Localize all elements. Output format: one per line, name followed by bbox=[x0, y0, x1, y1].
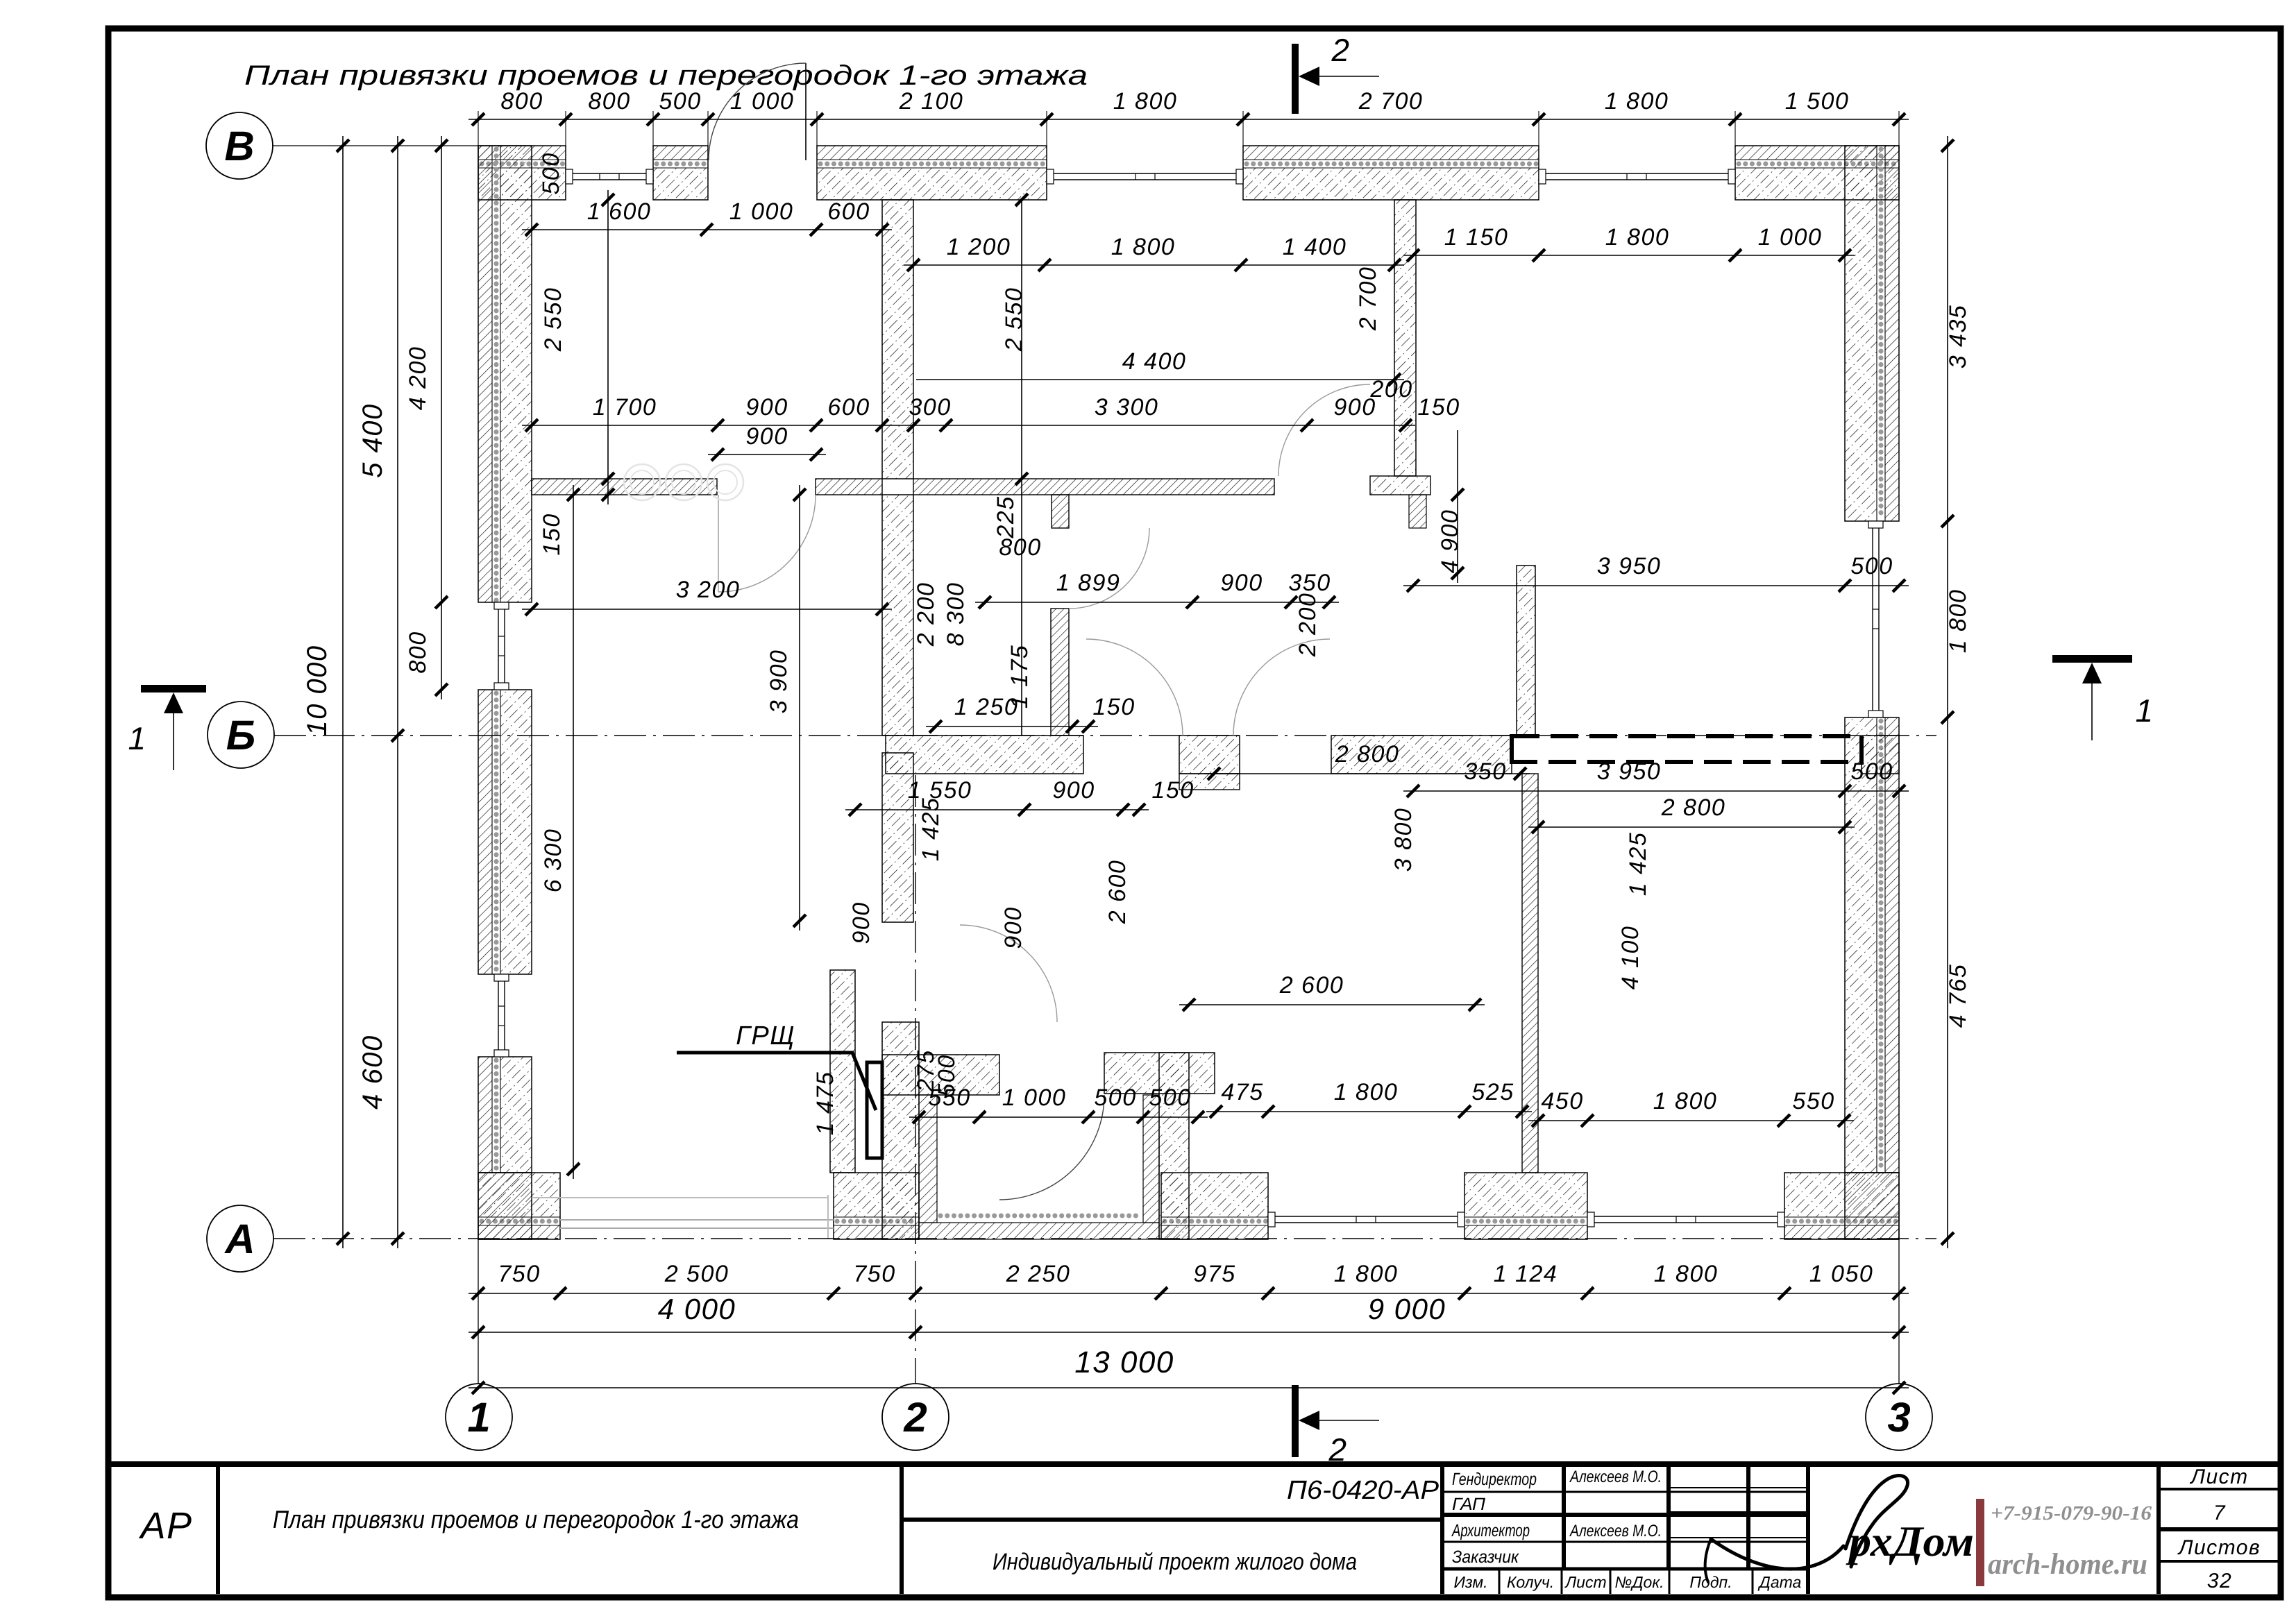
svg-text:450: 450 bbox=[1541, 1088, 1583, 1114]
door vestibule entry bbox=[999, 1095, 1104, 1200]
svg-text:900: 900 bbox=[745, 394, 788, 420]
svg-text:900: 900 bbox=[1052, 777, 1095, 804]
wall right exterior bbox=[1885, 146, 1899, 521]
svg-text:6 300: 6 300 bbox=[540, 829, 566, 893]
wall bottom right section bbox=[1161, 1225, 1268, 1239]
svg-text:4 000: 4 000 bbox=[658, 1293, 736, 1325]
svg-text:1 400: 1 400 bbox=[1283, 234, 1347, 260]
svg-text:№Док.: №Док. bbox=[1614, 1573, 1664, 1591]
dim row top outer bbox=[469, 119, 1909, 120]
svg-text:500: 500 bbox=[934, 1054, 960, 1096]
svg-text:1 800: 1 800 bbox=[1334, 1261, 1399, 1287]
svg-text:1 000: 1 000 bbox=[730, 88, 795, 114]
section mark 1 left bbox=[141, 685, 206, 692]
svg-text:1 800: 1 800 bbox=[1111, 234, 1176, 260]
svg-text:150: 150 bbox=[1151, 777, 1194, 804]
axis line Б bbox=[274, 735, 1936, 736]
svg-text:500: 500 bbox=[1850, 553, 1893, 579]
doors axis B hall bbox=[1086, 639, 1183, 736]
svg-text:2 600: 2 600 bbox=[1279, 972, 1344, 999]
wall right of bath bbox=[1517, 566, 1535, 736]
svg-text:Лист: Лист bbox=[1564, 1573, 1606, 1591]
svg-text:3 900: 3 900 bbox=[766, 649, 792, 714]
svg-text:Б: Б bbox=[226, 712, 255, 758]
svg-text:1 000: 1 000 bbox=[1002, 1085, 1067, 1111]
svg-text:1 425: 1 425 bbox=[1625, 832, 1651, 897]
svg-text:800: 800 bbox=[588, 88, 630, 114]
svg-text:Гендиректор: Гендиректор bbox=[1452, 1470, 1537, 1489]
svg-text:1 800: 1 800 bbox=[1654, 1261, 1719, 1287]
window right R1 bbox=[1872, 521, 1873, 717]
svg-text:13 000: 13 000 bbox=[1074, 1345, 1174, 1379]
dim 2800 rooms bbox=[1204, 773, 1530, 774]
svg-text:1 800: 1 800 bbox=[1653, 1088, 1718, 1114]
svg-text:1: 1 bbox=[128, 720, 146, 756]
svg-text:1: 1 bbox=[2135, 692, 2154, 729]
axis circle 2 bbox=[882, 1384, 949, 1450]
svg-text:3 300: 3 300 bbox=[1095, 394, 1159, 420]
svg-text:+7-915-079-90-16: +7-915-079-90-16 bbox=[1991, 1502, 2152, 1524]
svg-text:4 400: 4 400 bbox=[1122, 348, 1187, 375]
svg-text:4 200: 4 200 bbox=[405, 346, 431, 411]
dim col right bbox=[1947, 136, 1948, 1248]
svg-text:1 800: 1 800 bbox=[1605, 224, 1670, 250]
svg-text:П6-0420-АР: П6-0420-АР bbox=[1287, 1476, 1440, 1505]
svg-text:8 300: 8 300 bbox=[943, 582, 969, 647]
wall V1 bbox=[882, 200, 913, 479]
svg-text:А: А bbox=[223, 1216, 255, 1262]
rotated dims interior bbox=[607, 190, 609, 504]
svg-text:525: 525 bbox=[1471, 1079, 1514, 1105]
corner bottom-right bbox=[1845, 1173, 1899, 1239]
svg-text:500: 500 bbox=[1149, 1085, 1191, 1111]
dim 900 row bbox=[708, 454, 826, 455]
svg-text:2 250: 2 250 bbox=[1006, 1261, 1071, 1287]
svg-text:ГРЩ: ГРЩ bbox=[736, 1021, 795, 1051]
svg-text:1 175: 1 175 bbox=[1006, 645, 1033, 709]
dim row 1250/150 bbox=[926, 726, 1098, 727]
svg-text:АР: АР bbox=[138, 1505, 192, 1547]
wall V2 bbox=[1394, 200, 1416, 476]
svg-text:900: 900 bbox=[1220, 570, 1263, 596]
svg-text:Листов: Листов bbox=[2177, 1536, 2261, 1559]
svg-text:1 000: 1 000 bbox=[1758, 224, 1823, 250]
svg-text:350: 350 bbox=[1288, 570, 1331, 596]
porch outline bbox=[827, 1195, 829, 1239]
svg-text:1 500: 1 500 bbox=[1785, 88, 1850, 114]
svg-text:1 800: 1 800 bbox=[1334, 1079, 1399, 1105]
door D1 top entrance bbox=[805, 63, 807, 160]
wall bottom garage bbox=[478, 1225, 560, 1239]
svg-text:500: 500 bbox=[538, 152, 564, 194]
vestibule left L-wall bbox=[882, 1022, 919, 1239]
dim row bottom 2 bbox=[469, 1332, 1909, 1333]
dim row bottom rooms left bbox=[1206, 1111, 1532, 1112]
svg-text:1 475: 1 475 bbox=[812, 1071, 838, 1136]
svg-text:500: 500 bbox=[1094, 1085, 1136, 1111]
svg-text:800: 800 bbox=[405, 631, 431, 673]
dim 3950 lower bbox=[1403, 790, 1909, 792]
axis circle В bbox=[206, 112, 273, 179]
svg-text:4 600: 4 600 bbox=[357, 1035, 388, 1110]
svg-text:1 600: 1 600 bbox=[587, 198, 652, 225]
dim col 5400/4600 bbox=[397, 136, 398, 1248]
svg-text:Алексеев М.О.: Алексеев М.О. bbox=[1569, 1468, 1662, 1486]
svg-text:150: 150 bbox=[1092, 694, 1135, 720]
bedroom divider V3 bbox=[1522, 774, 1538, 1173]
svg-text:4 765: 4 765 bbox=[1945, 964, 1971, 1028]
svg-text:2: 2 bbox=[903, 1394, 927, 1441]
svg-text:Лист: Лист bbox=[2189, 1465, 2248, 1488]
svg-text:7: 7 bbox=[2213, 1502, 2226, 1524]
axis line 3 bbox=[1898, 1239, 1900, 1384]
garage right wall bbox=[830, 970, 855, 1173]
axis line 1 bbox=[478, 1239, 479, 1384]
dim row C bbox=[904, 264, 1404, 266]
svg-text:Заказчик: Заказчик bbox=[1452, 1547, 1519, 1567]
axis B load-bearing wall segments bbox=[886, 736, 1083, 774]
svg-text:9 000: 9 000 bbox=[1368, 1293, 1446, 1325]
dim row G bbox=[975, 602, 1339, 603]
section mark 2 top bbox=[1292, 44, 1299, 114]
dim row F interior bbox=[522, 425, 1415, 426]
axis line B(В) bbox=[272, 145, 478, 146]
svg-text:1 800: 1 800 bbox=[1945, 589, 1971, 654]
dim 2600 room bbox=[1179, 1004, 1485, 1005]
svg-text:1 000: 1 000 bbox=[729, 198, 794, 225]
svg-text:350: 350 bbox=[1464, 758, 1506, 785]
svg-text:3 200: 3 200 bbox=[676, 577, 741, 603]
svg-text:Индивидуальный проект жилого д: Индивидуальный проект жилого дома bbox=[993, 1549, 1357, 1575]
axis circle 3 bbox=[1866, 1384, 1932, 1450]
svg-text:3 800: 3 800 bbox=[1390, 808, 1417, 872]
axis circle 1 bbox=[446, 1384, 512, 1450]
svg-text:2 600: 2 600 bbox=[1104, 860, 1131, 925]
door hall-kitchen bbox=[1278, 384, 1370, 476]
svg-text:2 200: 2 200 bbox=[1294, 593, 1321, 658]
svg-text:3 950: 3 950 bbox=[1597, 553, 1662, 579]
svg-text:975: 975 bbox=[1193, 1261, 1235, 1287]
svg-text:2 800: 2 800 bbox=[1335, 741, 1400, 767]
axis line А bbox=[273, 1238, 1936, 1239]
svg-text:ГАП: ГАП bbox=[1452, 1495, 1486, 1514]
watermark bbox=[624, 464, 660, 500]
svg-text:10 000: 10 000 bbox=[302, 645, 332, 736]
svg-text:Колуч.: Колуч. bbox=[1507, 1573, 1554, 1591]
dim row B left bbox=[522, 229, 892, 230]
svg-text:1 200: 1 200 bbox=[947, 234, 1011, 260]
svg-text:Архитектор: Архитектор bbox=[1451, 1521, 1530, 1540]
window left L1 bbox=[498, 602, 499, 690]
svg-text:150: 150 bbox=[539, 513, 565, 555]
window top A1 bbox=[566, 173, 653, 174]
svg-text:1 124: 1 124 bbox=[1494, 1261, 1558, 1287]
svg-text:475: 475 bbox=[1221, 1079, 1263, 1105]
svg-text:2 100: 2 100 bbox=[899, 88, 964, 114]
door P1 room1 bbox=[718, 495, 719, 592]
dim 4400 bbox=[916, 379, 1404, 380]
section mark 1 right bbox=[2052, 655, 2132, 663]
svg-text:750: 750 bbox=[853, 1261, 895, 1287]
dim row bottom 3 bbox=[469, 1387, 1909, 1388]
svg-text:2 200: 2 200 bbox=[913, 582, 939, 647]
svg-text:800: 800 bbox=[999, 534, 1041, 561]
svg-text:32: 32 bbox=[2207, 1570, 2232, 1592]
svg-text:1 800: 1 800 bbox=[1605, 88, 1669, 114]
svg-text:900: 900 bbox=[1000, 906, 1027, 949]
dim col 10000 bbox=[342, 136, 344, 1248]
svg-text:900: 900 bbox=[848, 901, 875, 944]
axis circle Б bbox=[208, 702, 274, 768]
window top A3 bbox=[1539, 173, 1735, 174]
dim col 4200/800 bbox=[441, 136, 442, 699]
garage gate bbox=[560, 1219, 834, 1221]
svg-text:200: 200 bbox=[1369, 376, 1412, 402]
svg-text:2 700: 2 700 bbox=[1358, 88, 1424, 114]
svg-text:3 435: 3 435 bbox=[1945, 305, 1971, 369]
door bath west bbox=[1069, 528, 1149, 609]
title block bbox=[108, 1464, 2281, 1594]
svg-text:150: 150 bbox=[1417, 394, 1460, 420]
logo ArkhDom bbox=[1705, 1476, 1974, 1582]
svg-text:1 899: 1 899 bbox=[1056, 570, 1121, 596]
door boiler bbox=[960, 925, 1057, 1022]
bath west wall upper bbox=[1052, 495, 1069, 528]
vestibule inner lining bbox=[919, 1095, 937, 1223]
svg-text:500: 500 bbox=[1850, 758, 1893, 785]
svg-text:1: 1 bbox=[467, 1394, 490, 1441]
svg-text:600: 600 bbox=[827, 198, 870, 225]
partition P1 bbox=[532, 479, 717, 495]
dim 3200 bbox=[522, 609, 892, 610]
corner bottom-left bbox=[478, 1173, 532, 1239]
svg-text:Подп.: Подп. bbox=[1689, 1573, 1732, 1591]
svg-text:2: 2 bbox=[1331, 32, 1350, 68]
dim row 1550/900/150 bbox=[845, 809, 1149, 810]
section mark 2 bottom bbox=[1292, 1385, 1299, 1457]
svg-text:3 950: 3 950 bbox=[1597, 758, 1662, 785]
window left L2 bbox=[498, 974, 499, 1057]
dim 3950 upper bbox=[1403, 585, 1909, 586]
svg-text:1 050: 1 050 bbox=[1809, 1261, 1874, 1287]
vestibule right L-wall bbox=[1159, 1053, 1189, 1239]
svg-text:1 700: 1 700 bbox=[593, 394, 657, 420]
svg-text:2 550: 2 550 bbox=[1001, 287, 1027, 352]
svg-text:600: 600 bbox=[827, 394, 870, 420]
svg-text:Алексеев М.О.: Алексеев М.О. bbox=[1569, 1522, 1662, 1540]
beam over opening, axis B bbox=[1512, 736, 1862, 762]
svg-text:1 150: 1 150 bbox=[1444, 224, 1509, 250]
svg-text:225: 225 bbox=[993, 495, 1019, 538]
svg-text:550: 550 bbox=[1792, 1088, 1834, 1114]
svg-text:Изм.: Изм. bbox=[1453, 1573, 1487, 1591]
dim row bottom 1 bbox=[469, 1293, 1909, 1294]
electrical panel GRShch bbox=[867, 1062, 882, 1158]
svg-text:arch-home.ru: arch-home.ru bbox=[1988, 1548, 2147, 1581]
svg-text:2 700: 2 700 bbox=[1355, 266, 1381, 332]
dim row bottom rooms right bbox=[1528, 1120, 1854, 1121]
svg-text:План привязки проемов и перего: План привязки проемов и перегородок 1-го… bbox=[244, 60, 1088, 91]
window bottom B1 bbox=[1268, 1216, 1464, 1217]
dim row C right bbox=[1403, 255, 1855, 256]
svg-text:3: 3 bbox=[1887, 1394, 1910, 1441]
svg-text:4 900: 4 900 bbox=[1437, 509, 1463, 574]
window bottom B2 bbox=[1587, 1216, 1784, 1217]
svg-text:2 800: 2 800 bbox=[1661, 794, 1726, 821]
svg-text:1 425: 1 425 bbox=[918, 797, 944, 862]
wall left exterior bbox=[478, 146, 492, 602]
svg-text:2 500: 2 500 bbox=[664, 1261, 729, 1287]
svg-text:4 100: 4 100 bbox=[1617, 926, 1644, 990]
svg-text:750: 750 bbox=[498, 1261, 540, 1287]
svg-text:300: 300 bbox=[909, 394, 951, 420]
svg-text:2 550: 2 550 bbox=[540, 287, 566, 352]
axis line 2 bbox=[915, 775, 916, 1384]
axis circle А bbox=[207, 1205, 273, 1272]
bath west wall lower bbox=[1051, 609, 1069, 736]
svg-text:План привязки проемов и перего: План привязки проемов и перегородок 1-го… bbox=[273, 1505, 799, 1533]
partition P1b bbox=[1370, 476, 1430, 495]
window top A2 bbox=[1047, 173, 1243, 174]
svg-text:В: В bbox=[224, 123, 254, 169]
svg-text:500: 500 bbox=[659, 88, 701, 114]
svg-text:5 400: 5 400 bbox=[357, 403, 388, 478]
svg-text:рхДом: рхДом bbox=[1846, 1518, 1974, 1565]
wall top exterior bbox=[478, 146, 566, 160]
svg-text:800: 800 bbox=[500, 88, 543, 114]
dim row porch 550-1000 bbox=[909, 1116, 1208, 1118]
svg-text:1 800: 1 800 bbox=[1113, 88, 1178, 114]
svg-text:900: 900 bbox=[745, 423, 788, 450]
svg-text:Дата: Дата bbox=[1757, 1573, 1802, 1591]
